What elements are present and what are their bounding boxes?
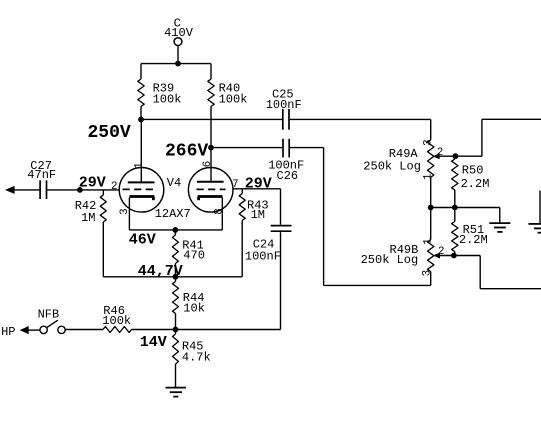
- svg-text:3: 3: [422, 270, 434, 276]
- svg-text:1M: 1M: [81, 211, 95, 225]
- svg-text:14V: 14V: [140, 334, 167, 351]
- svg-text:12AX7: 12AX7: [155, 207, 191, 221]
- svg-text:46V: 46V: [129, 232, 156, 249]
- svg-text:2: 2: [111, 181, 117, 193]
- svg-text:44,7V: 44,7V: [138, 263, 183, 280]
- svg-text:8: 8: [214, 208, 226, 214]
- svg-text:250k Log: 250k Log: [363, 160, 421, 174]
- svg-text:2.2M: 2.2M: [461, 177, 490, 191]
- svg-text:1M: 1M: [251, 208, 265, 222]
- svg-text:100nF: 100nF: [266, 98, 302, 112]
- svg-text:250V: 250V: [88, 123, 131, 143]
- svg-text:29V: 29V: [245, 175, 272, 192]
- svg-text:2: 2: [437, 147, 443, 159]
- svg-text:250k Log: 250k Log: [361, 253, 419, 267]
- svg-text:1: 1: [134, 162, 146, 168]
- svg-text:6: 6: [202, 161, 214, 167]
- svg-text:1: 1: [422, 238, 434, 244]
- svg-text:1: 1: [423, 174, 435, 180]
- svg-text:NFB: NFB: [38, 308, 60, 322]
- svg-text:3: 3: [422, 139, 434, 145]
- svg-text:HP: HP: [1, 325, 15, 339]
- svg-text:100nF: 100nF: [245, 249, 281, 263]
- svg-text:100k: 100k: [153, 92, 182, 106]
- svg-text:3: 3: [119, 208, 131, 214]
- svg-text:266V: 266V: [165, 142, 208, 162]
- svg-text:C26: C26: [277, 169, 299, 183]
- svg-text:4.7k: 4.7k: [182, 350, 211, 364]
- svg-text:100k: 100k: [219, 92, 248, 106]
- svg-text:410V: 410V: [164, 26, 194, 40]
- svg-text:47nF: 47nF: [27, 168, 56, 182]
- svg-text:29V: 29V: [79, 174, 106, 191]
- svg-text:R50: R50: [462, 163, 484, 177]
- svg-text:2.2M: 2.2M: [459, 233, 488, 247]
- svg-text:V4: V4: [167, 176, 181, 190]
- svg-text:470: 470: [183, 249, 205, 263]
- svg-text:7: 7: [232, 179, 238, 191]
- svg-text:10k: 10k: [183, 302, 205, 316]
- svg-text:2: 2: [438, 246, 444, 258]
- svg-text:100k: 100k: [102, 314, 131, 328]
